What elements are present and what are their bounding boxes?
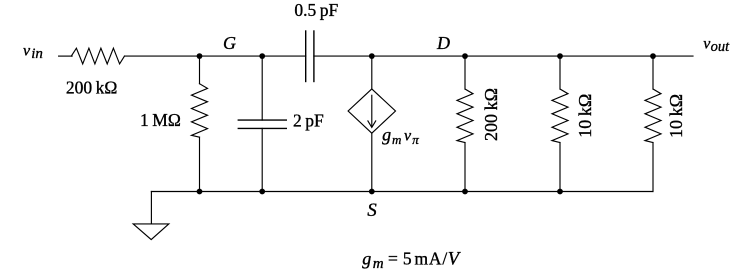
- svg-text:in: in: [31, 46, 43, 62]
- svg-text:mA/: mA/: [415, 248, 449, 268]
- svg-text:200 kΩ: 200 kΩ: [481, 88, 501, 141]
- svg-text:200 kΩ: 200 kΩ: [66, 77, 118, 97]
- svg-text:v: v: [404, 128, 412, 145]
- svg-text:0.5 pF: 0.5 pF: [294, 0, 338, 20]
- svg-text:10 kΩ: 10 kΩ: [575, 94, 595, 138]
- svg-text:G: G: [223, 33, 236, 53]
- svg-text:2 pF: 2 pF: [293, 110, 324, 130]
- svg-text:v: v: [23, 42, 31, 59]
- svg-text:g: g: [382, 125, 391, 145]
- svg-text:S: S: [367, 200, 377, 221]
- svg-text:m: m: [373, 256, 384, 272]
- svg-text:1 MΩ: 1 MΩ: [140, 110, 181, 130]
- svg-text:5: 5: [403, 248, 412, 268]
- svg-text:=: =: [388, 248, 398, 268]
- svg-text:out: out: [711, 39, 731, 55]
- svg-text:10 kΩ: 10 kΩ: [666, 94, 686, 138]
- svg-text:D: D: [436, 33, 450, 53]
- svg-text:g: g: [362, 248, 371, 268]
- svg-text:m: m: [392, 132, 401, 147]
- svg-text:π: π: [412, 132, 419, 147]
